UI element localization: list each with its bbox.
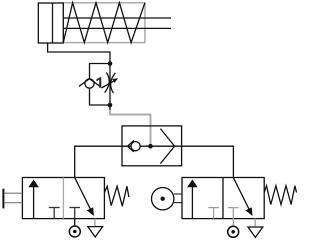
centerline through valve (122, 145, 182, 147)
right valve: exhaust port stub (gray) (254, 219, 256, 227)
wire (gray) flow control to shuttle valve (110, 105, 151, 146)
left valve: exhaust triangle (88, 227, 103, 237)
rest position: blocked port T (69, 208, 80, 219)
right valve: exhaust triangle (248, 227, 263, 237)
one-way flow control valve "1" (79, 64, 118, 106)
adjustment arrow (102, 80, 115, 88)
right valve: pressure port stub (gray) (232, 219, 234, 227)
junction dot (bottom of flow control) (108, 103, 113, 108)
left valve: compressed air source (69, 226, 80, 237)
junction dot (shuttle valve center) (148, 144, 153, 149)
rest position: exhaust path diagonal arrow (75, 178, 91, 211)
cylinder barrel (gray) (63, 3, 145, 43)
wire: shuttle valve to left 3/2 valve (75, 146, 122, 177)
roller actuator (152, 188, 174, 210)
wire: shuttle valve to right 3/2 valve (182, 146, 234, 177)
actuated position: blocked port T (gray) (208, 208, 219, 219)
single-acting cylinder, spring return (38, 3, 171, 43)
return spring (264, 186, 296, 205)
right valve: compressed air source (228, 226, 239, 237)
value label "1" (96, 77, 101, 87)
throttle arcs (105, 72, 110, 92)
push button actuator (2, 189, 4, 209)
cylinder end cap + piston (38, 3, 63, 43)
actuated position: blocked port T (49, 208, 60, 219)
main line through throttle (109, 64, 111, 106)
check valve seat (79, 79, 100, 87)
left valve: exhaust port stub (gray) (94, 219, 96, 227)
return spring zigzag (63, 3, 145, 43)
bypass loop (90, 64, 111, 106)
ball (131, 142, 140, 151)
piston rod (double line) (63, 17, 171, 19)
left seat (128, 141, 134, 152)
actuated position: flow path arrow up (191, 185, 193, 219)
3/2-way valve, push-button, spring return (left) (3, 178, 128, 219)
left valve: pressure port stub (74, 219, 76, 226)
wire: cylinder port to flow control valve (48, 43, 110, 64)
rest position: blocked port T (gray) (228, 208, 239, 219)
check valve ball (85, 79, 94, 88)
right chevron (160, 129, 174, 164)
3/2-way valve, roller, spring return (right) (152, 178, 297, 219)
junction dot (top of flow control) (108, 61, 113, 66)
actuated position: flow path arrow up (33, 185, 35, 219)
shuttle valve (122, 126, 182, 166)
rest position: exhaust path diagonal arrow (233, 178, 249, 211)
return spring (104, 186, 128, 206)
